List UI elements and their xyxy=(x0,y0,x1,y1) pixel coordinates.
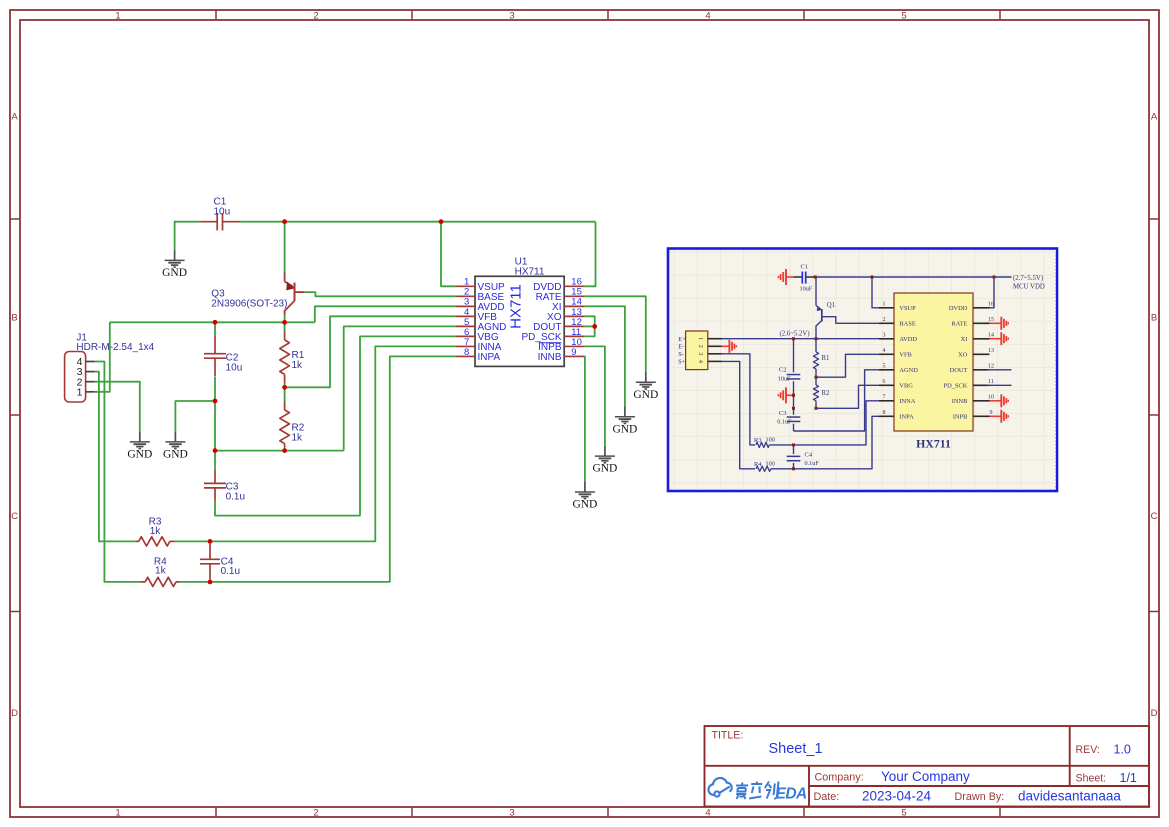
ground GND (RATE) xyxy=(636,372,656,389)
svg-text:GND: GND xyxy=(162,267,187,279)
svg-text:S+: S+ xyxy=(678,359,686,366)
svg-text:R3: R3 xyxy=(754,437,761,444)
svg-text:100: 100 xyxy=(766,460,775,467)
title block EasyEDA logo xyxy=(708,778,807,803)
svg-text:VFB: VFB xyxy=(899,352,911,359)
svg-text:C: C xyxy=(1151,511,1158,522)
svg-text:1k: 1k xyxy=(155,566,167,577)
wire C2 column xyxy=(214,322,216,335)
svg-text:AVDD: AVDD xyxy=(899,336,917,343)
wire J1 pin3 to R3 xyxy=(95,372,136,542)
embedded junction dots xyxy=(814,276,817,279)
embedded wire S+ to R4 xyxy=(722,361,755,468)
svg-text:1k: 1k xyxy=(292,433,304,444)
svg-text:Date:: Date: xyxy=(814,791,840,803)
svg-text:0.1u: 0.1u xyxy=(221,566,240,577)
svg-text:INNB: INNB xyxy=(538,352,562,363)
svg-text:1k: 1k xyxy=(292,360,304,371)
svg-text:B: B xyxy=(1151,313,1157,324)
svg-text:DOUT: DOUT xyxy=(950,367,968,374)
capacitor C1 xyxy=(200,221,217,223)
svg-text:10uF: 10uF xyxy=(778,375,791,382)
svg-text:1: 1 xyxy=(115,808,120,819)
svg-text:0.1u: 0.1u xyxy=(226,492,245,503)
svg-text:Q1: Q1 xyxy=(827,302,835,309)
capacitor C3 xyxy=(214,470,216,483)
embedded datasheet image frame xyxy=(668,249,1057,492)
svg-text:3: 3 xyxy=(509,11,514,22)
svg-text:INNA: INNA xyxy=(899,398,915,405)
svg-text:B: B xyxy=(11,313,17,324)
svg-text:5: 5 xyxy=(901,11,906,22)
embedded resistor R1 xyxy=(815,339,817,352)
svg-text:1.0: 1.0 xyxy=(1114,742,1131,756)
svg-text:3: 3 xyxy=(697,352,703,355)
embedded capacitor C3 xyxy=(787,416,801,418)
svg-text:4: 4 xyxy=(705,11,710,22)
svg-text:100: 100 xyxy=(766,436,775,443)
svg-text:2: 2 xyxy=(313,808,318,819)
svg-text:6: 6 xyxy=(883,379,886,385)
embedded wire DOUT xyxy=(987,369,1012,371)
svg-text:0.1uF: 0.1uF xyxy=(777,418,792,425)
svg-text:Company:: Company: xyxy=(815,772,864,784)
wire J1 pin1 up to node rail xyxy=(95,322,110,392)
svg-text:5: 5 xyxy=(883,363,886,369)
svg-text:GND: GND xyxy=(612,423,637,435)
ground GND (C1 left) xyxy=(165,250,185,267)
ground GND (INNB) xyxy=(575,482,595,499)
svg-text:INPA: INPA xyxy=(899,414,914,421)
svg-text:MCU VDD: MCU VDD xyxy=(1013,283,1045,290)
wire VSUP branch xyxy=(441,222,455,287)
svg-text:14: 14 xyxy=(988,332,994,338)
svg-text:R2: R2 xyxy=(822,390,831,397)
svg-text:R4: R4 xyxy=(754,461,762,468)
svg-text:TITLE:: TITLE: xyxy=(712,730,744,742)
embedded resistor R3 100 xyxy=(756,442,769,447)
wire Q3 emitter to rail xyxy=(284,222,286,273)
resistor R1 xyxy=(284,332,286,340)
svg-text:GND: GND xyxy=(163,448,188,460)
svg-text:2N3906(SOT-23): 2N3906(SOT-23) xyxy=(211,298,287,309)
embedded IC HX711 xyxy=(879,293,994,451)
svg-text:AGND: AGND xyxy=(899,367,918,374)
embedded capacitor C1 xyxy=(786,276,793,278)
svg-text:8: 8 xyxy=(883,410,886,416)
embedded ground (E-) xyxy=(722,345,730,347)
svg-text:GND: GND xyxy=(127,448,152,460)
embedded ground (C2) xyxy=(786,394,794,396)
wire bottom node rail y450 xyxy=(215,450,344,452)
svg-text:REV:: REV: xyxy=(1076,744,1100,756)
svg-text:Sheet:: Sheet: xyxy=(1076,773,1107,785)
svg-text:HX711: HX711 xyxy=(507,284,524,329)
title block grid xyxy=(705,726,1150,807)
svg-text:VSUP: VSUP xyxy=(899,305,916,312)
svg-text:davidesantanaaa: davidesantanaaa xyxy=(1018,789,1121,804)
svg-text:HX711: HX711 xyxy=(916,437,951,451)
svg-text:R1: R1 xyxy=(822,355,830,362)
svg-text:5: 5 xyxy=(901,808,906,819)
embedded capacitor C4 xyxy=(793,445,795,454)
svg-text:A: A xyxy=(11,112,18,123)
svg-text:XO: XO xyxy=(958,352,968,359)
svg-text:1k: 1k xyxy=(150,526,162,537)
svg-text:Sheet_1: Sheet_1 xyxy=(769,741,823,757)
embedded transistor Q1 xyxy=(816,277,880,339)
svg-text:INPA: INPA xyxy=(478,352,501,363)
svg-text:1/1: 1/1 xyxy=(1120,771,1137,785)
wire top VDD rail xyxy=(175,221,201,223)
embedded wire VSUP xyxy=(872,277,880,308)
svg-text:2: 2 xyxy=(313,11,318,22)
wire AGND to bottom node xyxy=(344,326,456,450)
embedded resistor R2 xyxy=(815,377,817,385)
wire DVDD branch xyxy=(584,222,595,287)
wire XI to GND xyxy=(584,306,625,406)
wire J1 pin2 to GND xyxy=(95,382,140,432)
op-amp U1 HX711 IC xyxy=(455,256,584,366)
svg-text:HX711: HX711 xyxy=(515,266,545,277)
svg-text:GND: GND xyxy=(633,389,658,401)
svg-text:RATE: RATE xyxy=(951,321,967,328)
svg-text:HDR-M-2.54_1x4: HDR-M-2.54_1x4 xyxy=(76,342,154,353)
transistor Q3 2N3906 xyxy=(211,273,304,315)
embedded ground (C1) xyxy=(785,269,787,285)
wire C3 to VBG xyxy=(214,451,216,471)
wire R2 leads green xyxy=(284,387,286,401)
embedded wire S- to R3 xyxy=(722,354,755,445)
embedded ground (INPB) xyxy=(990,415,1002,417)
wire Q3 collector down xyxy=(284,315,286,332)
wire R1 leads green xyxy=(284,322,286,331)
svg-text:C3: C3 xyxy=(779,410,787,417)
resistor R4 xyxy=(140,581,145,583)
svg-text:10: 10 xyxy=(988,394,994,400)
wire node rail y322 xyxy=(110,321,315,323)
embedded wire MCU VDD rail xyxy=(815,276,1011,278)
svg-text:11: 11 xyxy=(988,379,994,385)
svg-text:12: 12 xyxy=(988,363,994,369)
svg-text:S-: S- xyxy=(678,351,684,358)
svg-text:C: C xyxy=(11,511,18,522)
wire C2 mid node to GND xyxy=(175,401,215,432)
wire INPB to GND xyxy=(584,346,605,445)
svg-text:(2.7~5.5V): (2.7~5.5V) xyxy=(1013,275,1043,282)
embedded wire R1node to VFB xyxy=(816,354,880,377)
svg-text:16: 16 xyxy=(988,301,994,307)
wire R4 node to INPA xyxy=(180,356,456,582)
svg-text:D: D xyxy=(11,708,18,719)
wire RATE to GND xyxy=(584,296,646,372)
svg-text:E-: E- xyxy=(678,344,684,351)
svg-text:2: 2 xyxy=(697,345,703,348)
wire J1 pin4 to R4 xyxy=(95,362,140,582)
embedded wire AVDD rail xyxy=(714,338,880,340)
embedded connector E+ E- S- S+ xyxy=(678,331,722,370)
embedded ground (INNB) xyxy=(990,400,1002,402)
svg-text:EDA: EDA xyxy=(776,786,808,803)
embedded capacitor C2 xyxy=(793,339,795,373)
embedded wire C3 to AGND xyxy=(794,370,881,431)
resistor R2 xyxy=(284,401,286,410)
svg-text:D: D xyxy=(1151,708,1158,719)
embedded ground (RATE) xyxy=(990,322,1002,324)
embedded wire PD_SCK xyxy=(987,384,1012,386)
svg-text:3: 3 xyxy=(509,808,514,819)
svg-text:VBG: VBG xyxy=(899,383,913,390)
svg-text:3: 3 xyxy=(883,332,886,338)
svg-text:2: 2 xyxy=(883,317,886,323)
svg-text:1: 1 xyxy=(697,337,703,340)
svg-text:10u: 10u xyxy=(214,207,231,218)
wire INNB to GND xyxy=(583,356,586,481)
wire XO-DOUT-PDSCK tie xyxy=(584,316,595,336)
embedded wire R4 node to INPA xyxy=(794,416,881,469)
svg-text:C2: C2 xyxy=(779,367,787,374)
svg-text:BASE: BASE xyxy=(899,321,915,328)
embedded wire R3 node to INNA xyxy=(794,401,881,445)
svg-text:8: 8 xyxy=(464,347,469,358)
svg-text:1: 1 xyxy=(77,386,83,398)
wire VFB to R1-R2 node xyxy=(285,316,456,387)
embedded resistor R4 100 xyxy=(756,466,771,471)
svg-text:1: 1 xyxy=(115,11,120,22)
ground GND (INPB) xyxy=(595,446,615,463)
connector J1 HDR-M-2.54_1x4 xyxy=(65,333,155,403)
svg-text:GND: GND xyxy=(572,499,597,511)
frame ruler tick marks xyxy=(215,10,217,20)
capacitor C4 xyxy=(209,544,211,560)
svg-text:E+: E+ xyxy=(678,336,686,343)
svg-text:7: 7 xyxy=(883,394,886,400)
svg-text:9: 9 xyxy=(571,347,576,358)
svg-text:Your Company: Your Company xyxy=(881,769,970,784)
resistor R3 xyxy=(136,540,139,542)
svg-text:4: 4 xyxy=(697,360,703,363)
svg-text:XI: XI xyxy=(961,336,968,343)
svg-text:PD_SCK: PD_SCK xyxy=(944,383,968,390)
svg-text:13: 13 xyxy=(988,348,994,354)
svg-text:4: 4 xyxy=(883,348,886,354)
junction dots xyxy=(282,219,287,224)
ground GND (J1 pin2) xyxy=(130,432,150,449)
svg-text:10uF: 10uF xyxy=(800,286,813,293)
embedded ground (XI) xyxy=(990,338,1002,340)
svg-text:Drawn By:: Drawn By: xyxy=(955,791,1005,803)
svg-text:15: 15 xyxy=(988,317,994,323)
svg-text:INNB: INNB xyxy=(952,398,968,405)
svg-text:C1: C1 xyxy=(801,263,809,270)
ground GND (C2 node) xyxy=(165,432,185,449)
svg-text:2023-04-24: 2023-04-24 xyxy=(862,789,932,804)
wire R3 node to INNA xyxy=(175,346,456,541)
embedded wire R2node to VBG xyxy=(816,385,880,408)
wire AVDD to node xyxy=(315,306,455,322)
wire Q3 base to U1 pin2 xyxy=(304,292,455,296)
svg-text:0.1uF: 0.1uF xyxy=(805,460,820,467)
svg-text:1: 1 xyxy=(883,301,886,307)
svg-text:GND: GND xyxy=(592,463,617,475)
svg-text:C4: C4 xyxy=(805,451,813,458)
svg-text:A: A xyxy=(1151,112,1158,123)
capacitor C2 xyxy=(214,336,216,354)
svg-text:4: 4 xyxy=(705,808,710,819)
ground GND (XI) xyxy=(615,407,635,424)
embedded wire DVDD xyxy=(987,277,994,308)
svg-text:(2.6~5.2V): (2.6~5.2V) xyxy=(780,330,810,337)
svg-text:INPB: INPB xyxy=(953,414,968,421)
svg-text:DVDD: DVDD xyxy=(949,305,968,312)
svg-text:10u: 10u xyxy=(226,363,243,374)
svg-text:9: 9 xyxy=(990,410,993,416)
